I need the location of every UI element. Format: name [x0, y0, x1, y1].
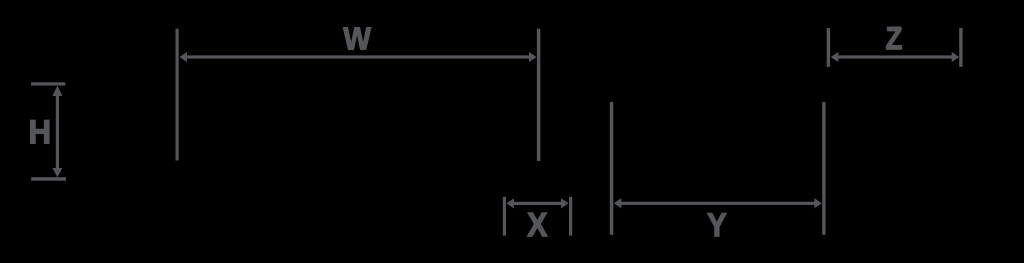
- dimension Y arrow shaft: [620, 202, 816, 205]
- dimension X arrow shaft: [512, 202, 563, 205]
- dimension Y arrowhead left: [614, 198, 622, 208]
- label X: [527, 213, 547, 236]
- dimension Z arrowhead left: [831, 52, 839, 62]
- dimension Y arrowhead right: [814, 198, 822, 208]
- dimension W arrowhead left: [180, 52, 188, 62]
- dimension H vertical arrow shaft: [56, 95, 59, 169]
- dimension W right extension line: [537, 29, 540, 161]
- label H: [31, 120, 49, 143]
- dimension W arrow shaft: [186, 55, 530, 58]
- dimension H top tick: [31, 82, 65, 85]
- dimension X arrowhead right: [561, 198, 569, 208]
- label W: [343, 28, 371, 50]
- dimension X arrowhead left: [506, 198, 514, 208]
- dimension Z right tick: [959, 28, 962, 67]
- dimension H arrowhead down: [52, 168, 62, 177]
- dimension H bottom tick: [31, 177, 66, 181]
- dimension H arrowhead up: [52, 86, 62, 97]
- dimension X right tick: [569, 197, 572, 236]
- dimension W arrowhead right: [529, 52, 537, 62]
- dimension Y left extension line: [610, 102, 614, 235]
- label Y: [708, 213, 727, 236]
- dimension Z arrowhead right: [952, 52, 960, 62]
- label Z: [886, 27, 901, 49]
- dimension Y right extension line: [822, 102, 825, 235]
- dimension X left tick: [503, 197, 506, 236]
- dimension W left extension line: [176, 29, 179, 161]
- dimension Z left tick: [827, 28, 830, 67]
- dimension Z arrow shaft: [837, 55, 953, 58]
